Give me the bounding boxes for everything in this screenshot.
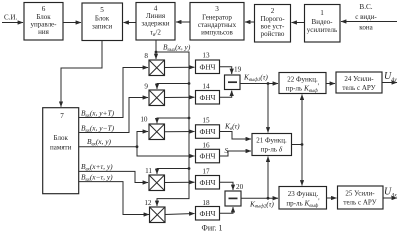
svg-text:Kвыф1(τ): Kвыф1(τ): [243, 73, 268, 83]
svg-text:13: 13: [202, 52, 210, 60]
svg-text:23 Функц.: 23 Функц.: [288, 190, 319, 198]
wire ФНЧ 18 to subtractor 20 bottom: [220, 207, 234, 213]
ФНЧ 18: [196, 199, 220, 220]
svg-text:Блок: Блок: [95, 15, 110, 23]
svg-text:16: 16: [202, 141, 210, 149]
block 22 Функц. пр-ль K_выф: [279, 73, 326, 94]
block 2 Пороговое устройство: [255, 5, 291, 43]
svg-text:2: 2: [271, 7, 275, 15]
block 24 Усилитель с АРУ: [336, 72, 382, 93]
svg-text:Bвх(x, y+T): Bвх(x, y+T): [81, 109, 115, 119]
wire output U_Δx: [383, 197, 397, 199]
svg-text:ФНЧ: ФНЧ: [200, 127, 216, 136]
node В.С. с видикона label: [355, 3, 377, 32]
wire С.И. into block 6: [2, 22, 23, 24]
svg-text:11: 11: [145, 167, 152, 175]
svg-text:Bвх(x, y−T): Bвх(x, y−T): [81, 124, 115, 134]
svg-text:Видео-: Видео-: [312, 18, 334, 26]
wire memory output B_вх(x,y+T) to multiplier 8: [79, 68, 148, 119]
wire multiplier 9 to ФНЧ 14: [165, 96, 195, 98]
wire multiplier 11 to ФНЧ 17: [165, 181, 195, 183]
svg-text:17: 17: [202, 168, 210, 176]
wire block 3 to block 4: [176, 21, 190, 23]
multiplier 12: [144, 199, 165, 223]
svg-text:ФНЧ: ФНЧ: [200, 62, 216, 71]
wire multiplier 10 to ФНЧ 15: [165, 131, 195, 133]
svg-text:Блок: Блок: [54, 134, 69, 142]
wire B_вых bus down to multiplier 12 top: [155, 51, 189, 206]
wire block 4 output down into multiplier 8: [155, 40, 157, 59]
wire ФНЧ 16 to block 21 S: [220, 151, 252, 156]
wire branch B_вх(x,y) to multiplier 10 left: [137, 132, 148, 147]
wire delta bus up to block 22 bottom: [301, 95, 303, 145]
svg-text:В.С.: В.С.: [359, 3, 372, 11]
wire block 1 to block 2: [292, 22, 305, 24]
svg-text:10: 10: [140, 116, 148, 124]
svg-text:усилитель: усилитель: [307, 26, 337, 34]
wire ФНЧ 17 to subtractor 20 top: [220, 182, 234, 190]
wire memory output B_вх(x,y−T) to multiplier 9: [79, 98, 148, 134]
svg-text:21 Функц.: 21 Функц.: [256, 137, 287, 145]
svg-text:6: 6: [42, 5, 46, 13]
wire bus branch to multiplier 11 top: [157, 167, 190, 174]
block 5 Блок записи: [82, 3, 123, 41]
svg-text:15: 15: [202, 117, 210, 125]
block 3 Генератор стандартных импульсов: [190, 3, 244, 41]
svg-text:25 Усили-: 25 Усили-: [345, 190, 375, 198]
svg-text:Kвыф2(τ): Kвыф2(τ): [249, 199, 274, 209]
ФНЧ 15: [196, 117, 220, 139]
block 21 Функц. пр-ль δ: [252, 134, 292, 156]
ФНЧ 14: [196, 83, 220, 105]
svg-text:12: 12: [144, 199, 152, 207]
wire subtractor 19 output K_выф1 to block 22: [240, 82, 278, 85]
svg-text:20: 20: [236, 183, 244, 191]
subtractor 20: [225, 183, 244, 206]
block 1 Видеоусилитель: [305, 5, 341, 43]
multiplier 8: [144, 52, 164, 76]
wire subtractor 20 output K_выф2 to block 23: [241, 197, 278, 200]
svg-text:тель с АРУ: тель с АРУ: [342, 84, 375, 92]
wire block 22 to block 24: [326, 83, 335, 85]
svg-text:импульсов: импульсов: [201, 29, 233, 37]
wire block 23 to block 25: [327, 197, 337, 199]
block 7 Блок памяти: [43, 108, 79, 194]
multiplier 9: [144, 83, 164, 106]
multiplier 10: [140, 116, 164, 140]
svg-text:С.И.: С.И.: [4, 14, 17, 22]
svg-text:Bвх(x+τ, y): Bвх(x+τ, y): [81, 162, 113, 172]
svg-text:Kв(τ): Kв(τ): [224, 122, 240, 132]
svg-text:ройство: ройство: [261, 30, 285, 38]
svg-text:кона: кона: [359, 24, 373, 32]
wire output U_Δy: [382, 82, 397, 84]
wire block 21 output to bus: [292, 143, 304, 146]
wire bus branch to multiplier 9 top: [157, 82, 190, 89]
svg-text:ФНЧ: ФНЧ: [200, 178, 216, 187]
svg-text:9: 9: [144, 83, 148, 91]
svg-text:Bвх(x−τ, y): Bвх(x−τ, y): [81, 172, 113, 182]
svg-text:Bвх(x, y): Bвх(x, y): [87, 137, 112, 147]
svg-text:3: 3: [215, 5, 219, 13]
svg-text:записи: записи: [92, 23, 112, 31]
svg-text:14: 14: [202, 83, 210, 91]
svg-text:8: 8: [144, 52, 148, 60]
block 4 Линия задержки: [136, 3, 175, 41]
wire block 4 to block 5: [124, 22, 137, 24]
svg-text:пр-ль Kвыф': пр-ль Kвыф': [286, 198, 319, 209]
svg-text:19: 19: [234, 66, 242, 74]
svg-text:памяти: памяти: [50, 144, 72, 152]
svg-text:UΔx: UΔx: [384, 187, 397, 199]
ФНЧ 17: [196, 168, 220, 190]
wire block 6 to block 5: [63, 22, 81, 24]
svg-text:1: 1: [320, 9, 324, 17]
wire block 5 to block 7 memory: [61, 41, 102, 107]
svg-text:тель с АРУ: тель с АРУ: [343, 199, 376, 207]
wire video signal В.С. into block 1: [341, 21, 397, 23]
wire ФНЧ 13 to subtractor 19 top: [220, 67, 232, 74]
wire bus branch to multiplier 10 top: [157, 117, 190, 124]
wire memory output B_вх(x,y): [79, 137, 138, 148]
wire memory output B_вх(x+τ,y) to multiplier 11: [79, 162, 148, 183]
wire memory output B_вх(x−τ,y) to multiplier 12: [79, 172, 149, 214]
svg-text:ФНЧ: ФНЧ: [200, 209, 216, 218]
svg-text:24 Усили-: 24 Усили-: [344, 75, 374, 83]
svg-text:5: 5: [100, 6, 104, 14]
svg-text:7: 7: [60, 112, 64, 120]
svg-text:τи/2: τи/2: [150, 28, 161, 38]
svg-text:задержки: задержки: [141, 20, 169, 28]
subtractor 19: [225, 66, 242, 90]
svg-text:Фиг. 1: Фиг. 1: [202, 223, 223, 232]
wire K_выф2 branch to block 21 bottom: [267, 157, 269, 199]
wire branch B_вх(x,y) to ФНЧ 16: [137, 147, 195, 156]
svg-text:UΔy: UΔy: [384, 71, 397, 83]
wire multiplier 8 to ФНЧ 13: [165, 66, 195, 68]
wire block 2 to block 3: [245, 21, 255, 23]
svg-text:пр-ль Kвыф': пр-ль Kвыф': [286, 83, 319, 94]
svg-text:пр-ль δ: пр-ль δ: [261, 145, 283, 154]
wire delta bus down to block 23 top: [301, 145, 303, 186]
wire K_выф1 branch to block 21 top: [267, 84, 269, 133]
svg-text:ФНЧ: ФНЧ: [200, 93, 216, 102]
multiplier 11: [145, 167, 164, 191]
wire ФНЧ 15 to block 21 K_в: [220, 132, 252, 140]
svg-text:ФНЧ: ФНЧ: [200, 152, 216, 161]
block 6 Блок управления: [24, 3, 63, 41]
block 25 Усилитель с АРУ: [338, 186, 384, 209]
svg-text:с види-: с види-: [355, 13, 377, 21]
svg-text:Bвых(x, y): Bвых(x, y): [163, 43, 191, 53]
ФНЧ 13: [196, 52, 220, 74]
ФНЧ 16: [196, 141, 220, 163]
wire ФНЧ 14 to subtractor 19 bottom: [220, 91, 232, 98]
svg-text:ния: ния: [38, 28, 49, 36]
block 23 Функц. пр-ль K_выф: [279, 187, 327, 210]
svg-text:18: 18: [202, 199, 210, 207]
wire multiplier 12 to ФНЧ 18: [165, 214, 195, 215]
svg-text:S: S: [225, 146, 229, 155]
svg-text:22 Функц.: 22 Функц.: [287, 76, 318, 84]
